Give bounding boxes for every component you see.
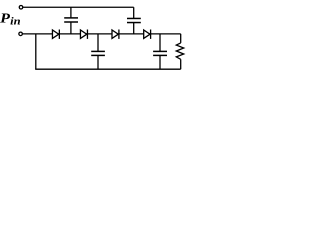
label P_in [0,12,21,28]
diode D4 [144,30,151,39]
wire top rail drop to C3 [133,7,135,18]
capacitor C3 [127,18,141,33]
capacitor C1 [64,18,78,34]
terminal bottom input [19,32,23,36]
capacitor C2 [91,34,105,69]
wire middle rail [22,33,181,35]
wire bottom rail [35,68,181,70]
svg-text:P: P [0,12,10,27]
wire left vertical to bottom rail [35,34,37,69]
wire right drop to resistor [180,34,182,43]
diode D1 [52,30,59,39]
resistor RL [176,43,183,59]
terminal top input [19,6,23,10]
svg-text:in: in [10,17,21,28]
wire top rail [23,6,134,8]
capacitor C4 [153,34,167,69]
wire tap from top rail to C1 [70,7,72,18]
diode D3 [112,30,119,39]
wire resistor bottom lead [180,59,182,69]
diode D2 [80,30,87,39]
